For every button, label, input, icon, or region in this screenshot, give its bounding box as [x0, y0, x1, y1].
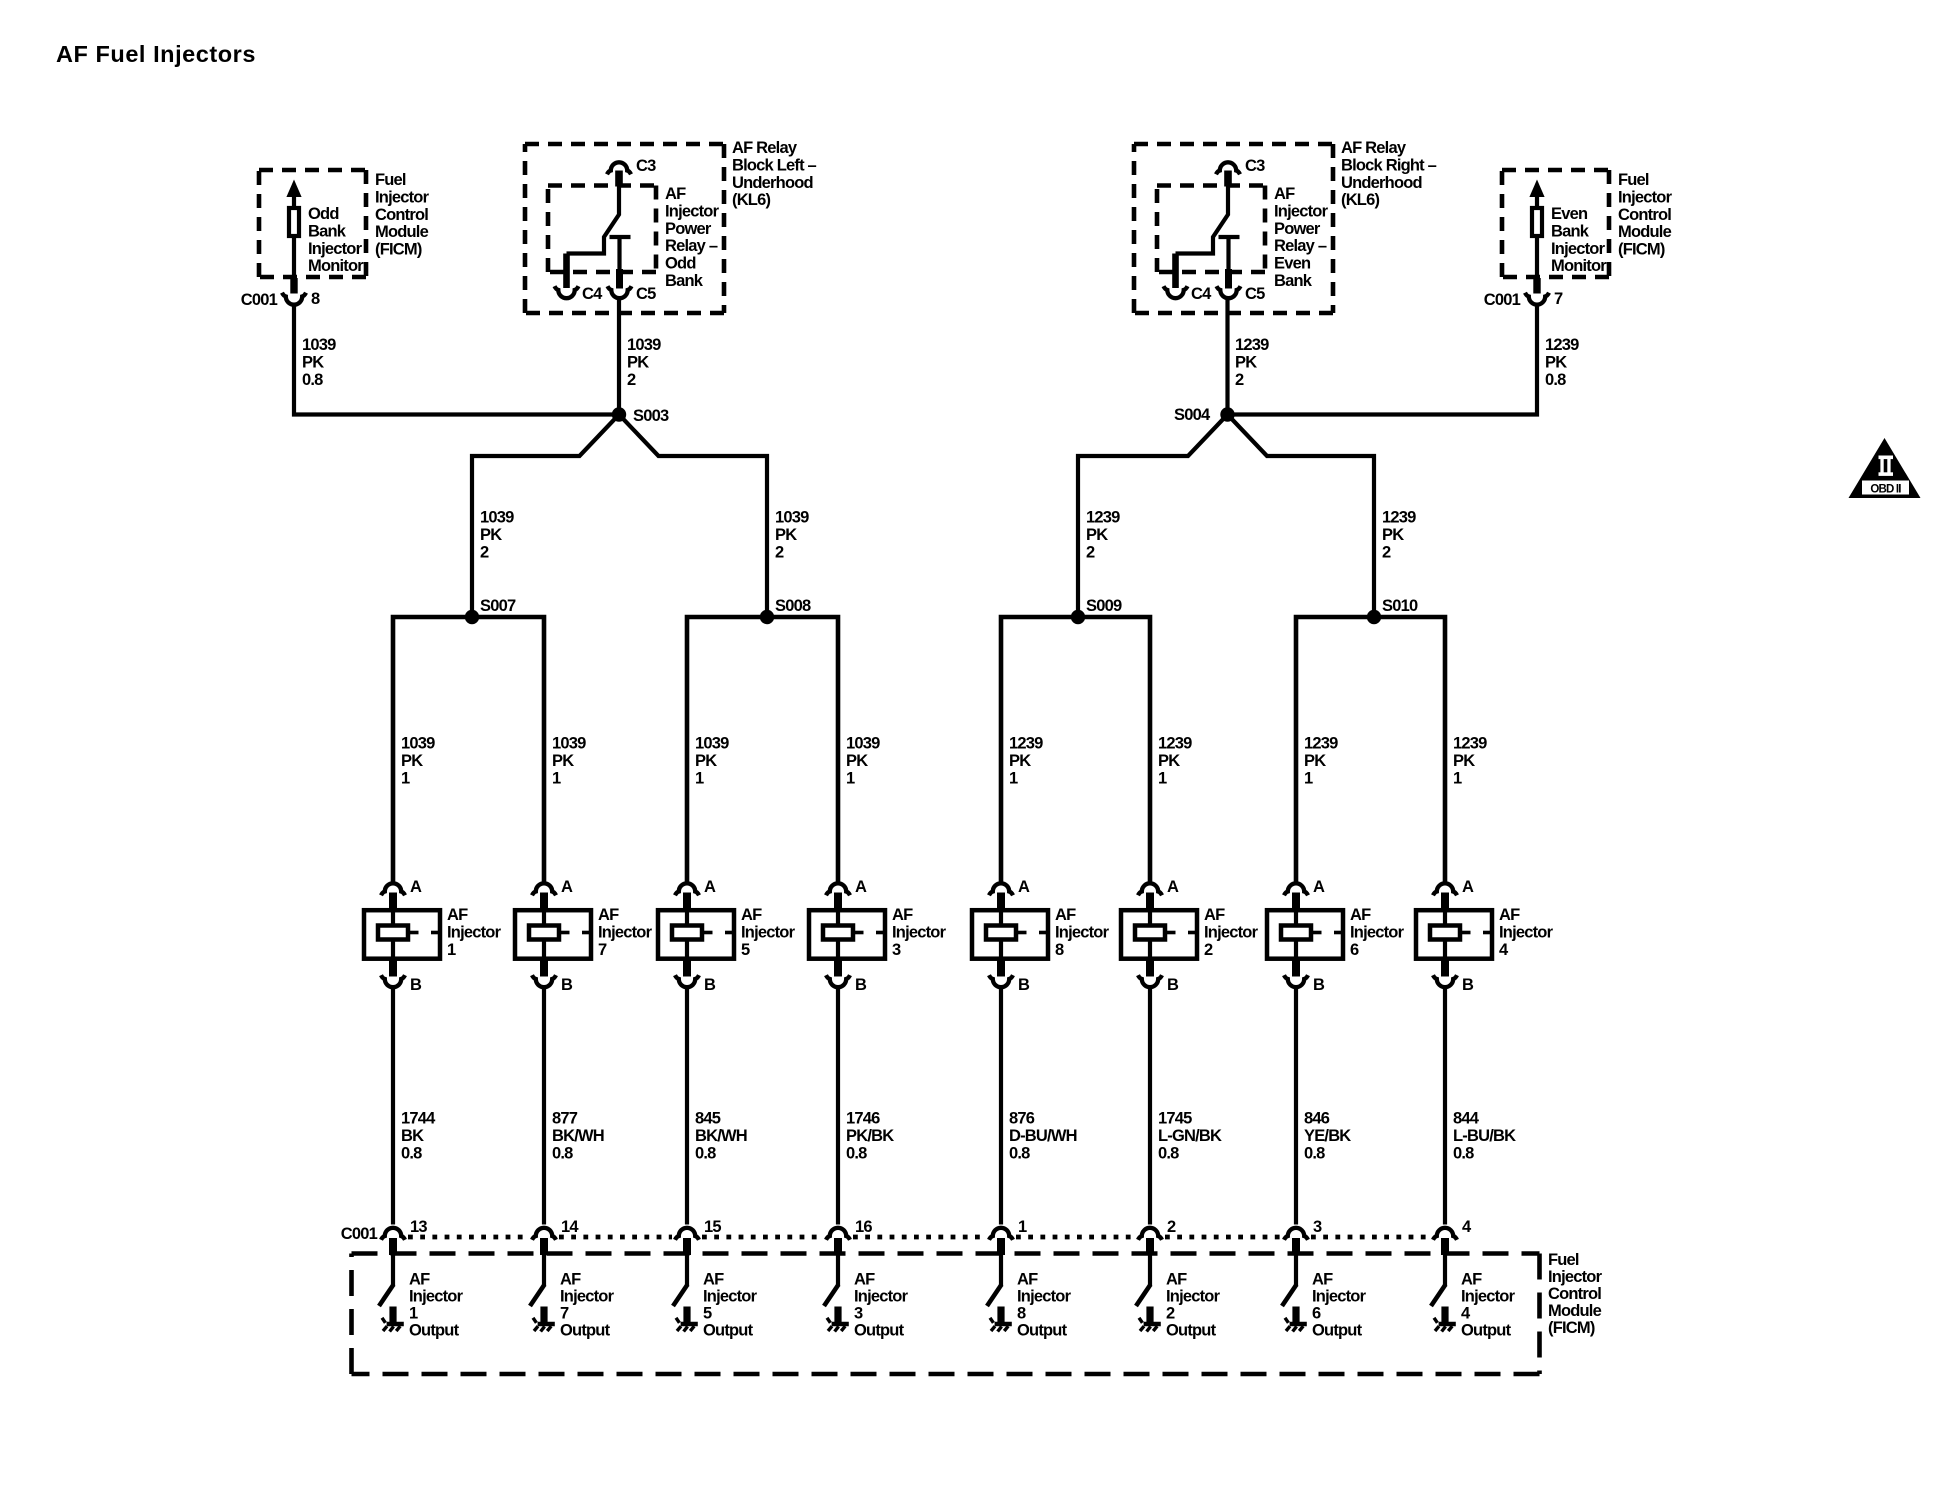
label AF Injector 8 Output [1017, 1271, 1072, 1340]
wire injector 8 pin B to C001 pin 1 [999, 989, 1003, 1225]
svg-text:OBD II: OBD II [1870, 484, 1901, 496]
label 1239 PK 2 branch right [1382, 509, 1416, 562]
connector C001 pin 3 [1284, 1218, 1322, 1240]
svg-text:Injector: Injector [447, 923, 502, 941]
svg-text:(FICM): (FICM) [375, 241, 422, 259]
connector pin B injector 2 [1138, 975, 1179, 994]
svg-text:C5: C5 [1245, 285, 1265, 303]
svg-text:AF: AF [1166, 1271, 1187, 1289]
svg-text:1039: 1039 [480, 509, 514, 527]
label AF Injector Power Relay - Even Bank [1274, 185, 1329, 290]
svg-text:1: 1 [409, 1305, 418, 1323]
svg-text:845: 845 [695, 1110, 721, 1128]
connector C5 right relay [1217, 285, 1266, 303]
svg-text:1: 1 [846, 769, 855, 787]
label wire 1745 L-GN/BK 0.8 col injector 2 [1158, 1110, 1222, 1163]
connector pin A injector 1 [381, 878, 422, 896]
svg-text:1039: 1039 [302, 336, 336, 354]
ground AF Injector 7 Output [533, 1318, 555, 1332]
svg-text:PK: PK [1545, 353, 1567, 371]
svg-text:AF: AF [1204, 906, 1225, 924]
driver switch AF Injector 2 Output [1136, 1238, 1154, 1323]
svg-text:PK: PK [552, 752, 574, 770]
connector C001 pin 4 [1433, 1218, 1472, 1240]
svg-text:S007: S007 [480, 597, 516, 615]
svg-text:A: A [1018, 878, 1030, 896]
label AF Injector 6 [1350, 906, 1405, 959]
wire C5 right relay to S004 [1225, 299, 1229, 415]
connector C001 pin 14 [532, 1218, 579, 1240]
svg-text:Output: Output [560, 1322, 611, 1340]
svg-text:A: A [561, 878, 573, 896]
label AF Injector 1 Output [409, 1271, 464, 1340]
svg-text:Monitor: Monitor [1551, 257, 1607, 275]
svg-text:PK: PK [1235, 353, 1257, 371]
svg-text:5: 5 [703, 1305, 712, 1323]
svg-text:Output: Output [703, 1322, 754, 1340]
svg-text:1239: 1239 [1304, 735, 1338, 753]
svg-text:AF: AF [1274, 185, 1295, 203]
relay fixed contact right relay [1219, 237, 1240, 289]
svg-text:1744: 1744 [401, 1110, 436, 1128]
label AF Injector 7 Output [560, 1271, 615, 1340]
svg-text:Output: Output [1166, 1322, 1217, 1340]
splice S007 [465, 597, 516, 624]
svg-text:Bank: Bank [308, 222, 347, 240]
label Fuel Injector Control Module (FICM) bottom [1548, 1251, 1603, 1337]
svg-text:A: A [1462, 878, 1474, 896]
svg-text:1039: 1039 [775, 509, 809, 527]
splice S008 [760, 597, 811, 624]
svg-text:Output: Output [1017, 1322, 1068, 1340]
label wire 1039 PK 1 col injector 5 [695, 735, 729, 788]
svg-text:Control: Control [1548, 1285, 1601, 1303]
label AF Injector 6 Output [1312, 1271, 1367, 1340]
label AF Injector 4 [1499, 906, 1554, 959]
wire injector 3 pin B to C001 pin 16 [836, 989, 840, 1225]
ground AF Injector 6 Output [1285, 1318, 1307, 1332]
label AF Injector 3 [892, 906, 947, 959]
svg-text:A: A [704, 878, 716, 896]
svg-text:PK: PK [480, 526, 502, 544]
svg-text:AF: AF [447, 906, 468, 924]
svg-text:1239: 1239 [1545, 336, 1579, 354]
svg-text:5: 5 [741, 941, 750, 959]
svg-text:1239: 1239 [1086, 509, 1120, 527]
svg-text:B: B [1167, 976, 1179, 994]
svg-text:Injector: Injector [1548, 1268, 1603, 1286]
svg-text:Control: Control [1618, 206, 1671, 224]
svg-text:0.8: 0.8 [1453, 1144, 1474, 1162]
svg-text:1039: 1039 [552, 735, 586, 753]
svg-text:Output: Output [409, 1322, 460, 1340]
module Fuel Injector Control Module (FICM) odd bank dashed box [259, 170, 366, 277]
svg-text:AF: AF [1017, 1271, 1038, 1289]
connector C5 left relay [608, 285, 657, 303]
svg-text:Injector: Injector [1551, 240, 1606, 258]
label AF Injector 5 [741, 906, 796, 959]
svg-text:8: 8 [311, 290, 320, 308]
ground AF Injector 8 Output [990, 1318, 1012, 1332]
wire S004 to S010 [1228, 415, 1375, 618]
label AF Injector 3 Output [854, 1271, 909, 1340]
svg-text:Injector: Injector [703, 1288, 758, 1306]
svg-text:Injector: Injector [892, 923, 947, 941]
svg-text:Even: Even [1274, 255, 1311, 273]
svg-text:1: 1 [1453, 769, 1462, 787]
svg-text:YE/BK: YE/BK [1304, 1127, 1351, 1145]
svg-text:1239: 1239 [1235, 336, 1269, 354]
connector pin B injector 1 [381, 975, 422, 994]
connector pin A injector 2 [1138, 878, 1179, 896]
svg-text:0.8: 0.8 [302, 371, 323, 389]
svg-text:3: 3 [892, 941, 901, 959]
svg-text:BK/WH: BK/WH [695, 1127, 747, 1145]
svg-text:C3: C3 [636, 157, 656, 175]
wire C001-8 to S003 [294, 306, 619, 415]
svg-text:0.8: 0.8 [1009, 1144, 1030, 1162]
svg-text:S004: S004 [1174, 406, 1211, 424]
label wire 844 L-BU/BK 0.8 col injector 4 [1453, 1110, 1516, 1163]
svg-text:1039: 1039 [401, 735, 435, 753]
module Fuel Injector Control Module (FICM) bottom dashed box [352, 1254, 1540, 1375]
label wire 877 BK/WH 0.8 col injector 7 [552, 1110, 604, 1163]
driver switch AF Injector 3 Output [824, 1238, 842, 1323]
svg-text:0.8: 0.8 [1545, 371, 1566, 389]
connector pin A injector 8 [989, 878, 1030, 896]
svg-text:C4: C4 [1191, 285, 1212, 303]
connector C4 left relay [555, 285, 604, 303]
svg-text:Relay –: Relay – [1274, 237, 1327, 255]
label AF Injector 7 [598, 906, 653, 959]
svg-text:S003: S003 [633, 407, 669, 425]
svg-text:AF: AF [1499, 906, 1520, 924]
svg-text:Injector: Injector [1350, 923, 1405, 941]
label AF Relay Block Right - Underhood (KL6) [1341, 139, 1437, 209]
svg-text:C001: C001 [341, 1225, 378, 1243]
svg-text:1: 1 [695, 769, 704, 787]
injector coil AF Injector 8 [972, 893, 1049, 977]
svg-text:Fuel: Fuel [1548, 1251, 1579, 1269]
svg-text:BK: BK [401, 1127, 424, 1145]
svg-text:13: 13 [410, 1218, 427, 1236]
svg-text:AF: AF [741, 906, 762, 924]
ground AF Injector 2 Output [1139, 1318, 1161, 1332]
driver switch AF Injector 7 Output [530, 1238, 548, 1323]
connector C001 pin 13 [381, 1218, 427, 1240]
svg-text:Injector: Injector [854, 1288, 909, 1306]
svg-text:16: 16 [855, 1218, 872, 1236]
svg-text:Injector: Injector [665, 202, 720, 220]
label AF Relay Block Left - Underhood (KL6) [732, 139, 817, 209]
svg-text:8: 8 [1017, 1305, 1026, 1323]
svg-text:(FICM): (FICM) [1548, 1319, 1595, 1337]
svg-text:2: 2 [480, 543, 489, 561]
splice S010 [1367, 597, 1418, 624]
label 1039 PK 0.8 left [302, 336, 336, 389]
connector pin A injector 3 [826, 878, 867, 896]
svg-text:C4: C4 [582, 285, 603, 303]
splice S010 bus wire [1296, 617, 1445, 882]
splice S008 bus wire [687, 617, 838, 882]
svg-text:(FICM): (FICM) [1618, 241, 1665, 259]
driver switch AF Injector 5 Output [673, 1238, 691, 1323]
svg-text:S010: S010 [1382, 597, 1418, 615]
svg-text:Injector: Injector [308, 240, 363, 258]
wire injector 2 pin B to C001 pin 2 [1148, 989, 1152, 1225]
svg-text:Fuel: Fuel [1618, 171, 1649, 189]
connector C001 pin 1 [989, 1218, 1027, 1240]
ground AF Injector 1 Output [382, 1318, 404, 1332]
svg-text:AF: AF [854, 1271, 875, 1289]
ground AF Injector 3 Output [827, 1318, 849, 1332]
svg-text:L-GN/BK: L-GN/BK [1158, 1127, 1222, 1145]
svg-text:AF: AF [560, 1271, 581, 1289]
svg-text:Injector: Injector [1055, 923, 1110, 941]
connector C3 left relay [607, 157, 656, 175]
connector C3 right relay [1216, 157, 1265, 175]
svg-text:876: 876 [1009, 1110, 1035, 1128]
svg-text:1: 1 [1158, 769, 1167, 787]
label 1239 PK 0.8 right [1545, 336, 1579, 389]
svg-text:PK: PK [1304, 752, 1326, 770]
svg-text:B: B [1313, 976, 1325, 994]
svg-text:1: 1 [1009, 769, 1018, 787]
label 1239 PK 2 branch left [1086, 509, 1120, 562]
svg-text:Injector: Injector [1499, 923, 1554, 941]
svg-text:2: 2 [1086, 543, 1095, 561]
svg-text:3: 3 [854, 1305, 863, 1323]
svg-text:Odd: Odd [665, 255, 696, 273]
svg-text:AF Fuel Injectors: AF Fuel Injectors [56, 41, 256, 67]
connector C001 pin 16 [826, 1218, 872, 1240]
label wire 845 BK/WH 0.8 col injector 5 [695, 1110, 747, 1163]
icon OBD II triangle [1849, 438, 1921, 498]
connector pin B injector 6 [1284, 975, 1325, 994]
svg-text:Output: Output [1312, 1322, 1363, 1340]
connector pin B injector 4 [1433, 975, 1474, 994]
label AF Injector Power Relay - Odd Bank [665, 185, 720, 290]
wire injector 1 pin B to C001 pin 13 [391, 989, 395, 1225]
svg-text:AF Relay: AF Relay [1341, 139, 1407, 157]
svg-text:Power: Power [665, 220, 712, 238]
splice S009 [1071, 597, 1122, 624]
label wire 1039 PK 1 col injector 1 [401, 735, 435, 788]
svg-text:AF: AF [892, 906, 913, 924]
injector coil AF Injector 7 [515, 893, 592, 977]
relay switch arm right relay [1172, 171, 1232, 289]
svg-text:PK: PK [775, 526, 797, 544]
connector C001 pin 15 [675, 1218, 721, 1240]
svg-text:0.8: 0.8 [552, 1144, 573, 1162]
wire injector 6 pin B to C001 pin 3 [1294, 989, 1298, 1225]
svg-text:PK: PK [1158, 752, 1180, 770]
connector pin B injector 8 [989, 975, 1030, 994]
label Fuel Injector Control Module (FICM) left [375, 171, 430, 259]
connector pin A injector 6 [1284, 878, 1325, 896]
title AF Fuel Injectors [56, 41, 256, 67]
relay AF Injector Power Relay - Odd Bank inner dashed box [548, 186, 656, 273]
module AF Relay Block Left - Underhood (KL6) dashed box [525, 144, 724, 313]
svg-text:14: 14 [561, 1218, 579, 1236]
svg-text:Control: Control [375, 206, 428, 224]
splice S007 bus wire [393, 617, 544, 882]
svg-text:1039: 1039 [695, 735, 729, 753]
svg-text:BK/WH: BK/WH [552, 1127, 604, 1145]
svg-text:B: B [704, 976, 716, 994]
svg-text:1239: 1239 [1382, 509, 1416, 527]
resistor odd bank injector monitor with arrow [286, 180, 301, 294]
svg-text:1039: 1039 [846, 735, 880, 753]
label wire 876 D-BU/WH 0.8 col injector 8 [1009, 1110, 1077, 1163]
svg-text:B: B [855, 976, 867, 994]
svg-text:Module: Module [1618, 223, 1672, 241]
svg-text:Bank: Bank [1551, 222, 1590, 240]
connector C001 pin 7 [1484, 290, 1563, 309]
label wire 1239 PK 1 col injector 6 [1304, 735, 1338, 788]
injector coil AF Injector 3 [809, 893, 886, 977]
svg-text:1239: 1239 [1158, 735, 1192, 753]
label AF Injector 2 [1204, 906, 1259, 959]
svg-text:Monitor: Monitor [308, 257, 364, 275]
svg-text:PK: PK [302, 353, 324, 371]
label wire 1239 PK 1 col injector 4 [1453, 735, 1487, 788]
svg-text:2: 2 [1167, 1218, 1176, 1236]
svg-text:Injector: Injector [1312, 1288, 1367, 1306]
label wire 846 YE/BK 0.8 col injector 6 [1304, 1110, 1351, 1163]
injector coil AF Injector 1 [364, 893, 441, 977]
svg-text:Underhood: Underhood [1341, 174, 1422, 192]
svg-text:C5: C5 [636, 285, 656, 303]
label 1039 PK 2 branch left [480, 509, 514, 562]
resistor even bank injector monitor with arrow [1529, 180, 1544, 294]
svg-text:Injector: Injector [1461, 1288, 1516, 1306]
svg-text:1239: 1239 [1009, 735, 1043, 753]
label wire 1239 PK 1 col injector 2 [1158, 735, 1192, 788]
svg-text:PK: PK [627, 353, 649, 371]
connector pin A injector 4 [1433, 878, 1474, 896]
svg-text:2: 2 [1204, 941, 1213, 959]
svg-text:Power: Power [1274, 220, 1321, 238]
svg-text:Injector: Injector [560, 1288, 615, 1306]
svg-text:6: 6 [1312, 1305, 1321, 1323]
svg-text:(KL6): (KL6) [1341, 191, 1379, 209]
svg-text:Block Right –: Block Right – [1341, 156, 1437, 174]
svg-text:PK: PK [1009, 752, 1031, 770]
injector coil AF Injector 2 [1121, 893, 1198, 977]
splice S009 bus wire [1001, 617, 1150, 882]
module Fuel Injector Control Module (FICM) even bank dashed box [1502, 170, 1609, 277]
svg-text:Fuel: Fuel [375, 171, 406, 189]
injector coil AF Injector 5 [658, 893, 735, 977]
label AF Injector 1 [447, 906, 502, 959]
wire C001-7 to S004 [1228, 306, 1538, 415]
svg-text:Odd: Odd [308, 205, 339, 223]
svg-text:AF: AF [703, 1271, 724, 1289]
wire S004 to S009 [1078, 415, 1228, 618]
svg-text:B: B [561, 976, 573, 994]
svg-text:Module: Module [375, 223, 429, 241]
label wire 1239 PK 1 col injector 8 [1009, 735, 1043, 788]
svg-text:877: 877 [552, 1110, 578, 1128]
svg-text:1: 1 [552, 769, 561, 787]
svg-text:0.8: 0.8 [401, 1144, 422, 1162]
svg-text:A: A [1313, 878, 1325, 896]
svg-text:2: 2 [1235, 371, 1244, 389]
svg-text:Injector: Injector [1204, 923, 1259, 941]
svg-text:Module: Module [1548, 1302, 1602, 1320]
svg-text:AF: AF [1055, 906, 1076, 924]
svg-text:Bank: Bank [665, 272, 704, 290]
svg-text:D-BU/WH: D-BU/WH [1009, 1127, 1077, 1145]
svg-text:2: 2 [627, 371, 636, 389]
connector C001 pin 8 [241, 290, 320, 309]
svg-text:Even: Even [1551, 205, 1588, 223]
connector pin A injector 5 [675, 878, 716, 896]
connector pin B injector 7 [532, 975, 573, 994]
label Fuel Injector Control Module (FICM) right [1618, 171, 1673, 259]
svg-text:1746: 1746 [846, 1110, 880, 1128]
label AF Injector 4 Output [1461, 1271, 1516, 1340]
svg-text:PK: PK [1086, 526, 1108, 544]
connector pin A injector 7 [532, 878, 573, 896]
svg-text:AF: AF [665, 185, 686, 203]
svg-text:846: 846 [1304, 1110, 1330, 1128]
wire C5 left relay to S003 [617, 299, 621, 415]
module AF Relay Block Right - Underhood (KL6) dashed box [1134, 144, 1333, 313]
label wire 1744 BK 0.8 col injector 1 [401, 1110, 436, 1163]
svg-text:3: 3 [1313, 1218, 1322, 1236]
label AF Injector 2 Output [1166, 1271, 1221, 1340]
svg-text:1: 1 [401, 769, 410, 787]
svg-text:Underhood: Underhood [732, 174, 813, 192]
driver switch AF Injector 4 Output [1431, 1238, 1449, 1323]
svg-text:Output: Output [854, 1322, 905, 1340]
label wire 1039 PK 1 col injector 3 [846, 735, 880, 788]
relay AF Injector Power Relay - Even Bank inner dashed box [1157, 186, 1265, 273]
svg-text:B: B [1018, 976, 1030, 994]
svg-text:2: 2 [775, 543, 784, 561]
svg-text:Injector: Injector [1618, 188, 1673, 206]
svg-text:S009: S009 [1086, 597, 1122, 615]
svg-text:1: 1 [1018, 1218, 1027, 1236]
injector coil AF Injector 4 [1416, 893, 1493, 977]
svg-text:Injector: Injector [741, 923, 796, 941]
svg-text:PK: PK [1382, 526, 1404, 544]
wire injector 7 pin B to C001 pin 14 [542, 989, 546, 1225]
relay switch arm left relay [563, 171, 623, 289]
svg-text:Block Left –: Block Left – [732, 156, 817, 174]
label 1039 PK 2 relay drop [627, 336, 661, 389]
label Odd Bank Injector Monitor [308, 205, 364, 275]
wire S003 to S007 [472, 415, 619, 618]
svg-text:Injector: Injector [1166, 1288, 1221, 1306]
splice S003 [612, 407, 669, 425]
svg-text:0.8: 0.8 [846, 1144, 867, 1162]
wire injector 4 pin B to C001 pin 4 [1443, 989, 1447, 1225]
wire S003 to S008 [619, 415, 767, 618]
svg-text:7: 7 [598, 941, 607, 959]
connector pin B injector 3 [826, 975, 867, 994]
svg-text:AF Relay: AF Relay [732, 139, 798, 157]
svg-text:L-BU/BK: L-BU/BK [1453, 1127, 1516, 1145]
svg-text:AF: AF [1350, 906, 1371, 924]
svg-text:(KL6): (KL6) [732, 191, 770, 209]
connector C001 pin 2 [1138, 1218, 1176, 1240]
svg-text:C3: C3 [1245, 157, 1265, 175]
svg-text:B: B [410, 976, 422, 994]
connector C4 right relay [1164, 285, 1213, 303]
